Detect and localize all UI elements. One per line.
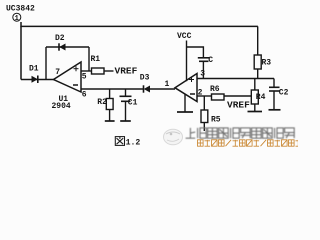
capacitor C [198, 56, 214, 79]
svg-text:2904: 2904 [52, 102, 71, 111]
svg-text:7: 7 [55, 68, 60, 77]
ground for C2 [269, 109, 281, 111]
svg-text:R2: R2 [97, 98, 107, 107]
wire pin2 stub [197, 95, 212, 97]
svg-text:1.2: 1.2 [126, 139, 141, 148]
resistor R6 [210, 85, 224, 100]
svg-text:R4: R4 [256, 93, 266, 102]
ground for C1 [120, 120, 131, 122]
svg-text:C2: C2 [279, 89, 289, 98]
wire left drop to D1 [20, 26, 22, 79]
svg-text:1: 1 [165, 80, 170, 89]
capacitor C1 [120, 89, 138, 121]
resistor R3 [254, 55, 271, 79]
wire D1 row [21, 79, 54, 81]
svg-text:R6: R6 [210, 85, 220, 94]
pin marker circle 1 [13, 13, 21, 21]
svg-text:C: C [208, 56, 213, 65]
figure caption 图1.2 [115, 137, 140, 148]
plus input mark [74, 66, 79, 71]
svg-text:D3: D3 [140, 74, 150, 83]
watermark slogan text row (orange) [198, 140, 302, 146]
op-amp U1 (2904) stage 1 [54, 62, 82, 92]
svg-text:R1: R1 [91, 55, 101, 64]
wire D3 to op-amp 2 output [150, 88, 175, 90]
diode D3 [140, 74, 150, 93]
resistor R5 [201, 96, 221, 131]
wire rail drop to R3 [257, 26, 259, 55]
ground for R4 [248, 111, 263, 113]
wire pin5 stub [81, 70, 92, 72]
wire VCC branch to C [187, 47, 204, 58]
wire feedback top row [46, 46, 89, 48]
watermark logo [164, 129, 183, 145]
wire pin3 row [197, 78, 274, 80]
svg-text:6: 6 [82, 91, 87, 100]
minus input mark [73, 84, 78, 86]
resistor R2 [97, 89, 113, 121]
wire top rail from pin 1 to R3 [21, 22, 258, 26]
wire R1 to VREF [104, 70, 114, 72]
svg-text:D2: D2 [55, 34, 65, 43]
minus input mark (stage 2) [190, 93, 195, 95]
svg-text:1: 1 [15, 15, 19, 23]
wire feedback right drop to pin5 [88, 47, 90, 71]
svg-text:VREF: VREF [227, 100, 250, 111]
resistor R1 [91, 55, 105, 74]
svg-text:VCC: VCC [177, 32, 192, 41]
wire R6 to R4 [224, 95, 251, 97]
watermark company text row (gray) [186, 128, 295, 138]
svg-text:C1: C1 [128, 99, 138, 108]
diode D1 [29, 65, 39, 84]
svg-text:2: 2 [198, 89, 203, 98]
svg-text:R5: R5 [211, 116, 221, 125]
diode D2 [55, 34, 66, 51]
svg-text:R3: R3 [262, 59, 272, 68]
ground for R2 [105, 120, 115, 122]
wire feedback tap up [45, 47, 47, 80]
svg-text:3: 3 [200, 70, 205, 79]
svg-text:D1: D1 [29, 65, 39, 74]
plus input mark (stage 2) [189, 77, 194, 82]
wire VCC drop [186, 41, 188, 82]
capacitor C2 [269, 79, 289, 110]
ground for op-amp 2 [177, 95, 193, 113]
wire pin6 row [81, 88, 144, 90]
svg-text:UC3842: UC3842 [6, 5, 35, 14]
resistor R4 [251, 79, 265, 112]
svg-text:5: 5 [82, 73, 87, 82]
svg-text:VREF: VREF [115, 66, 138, 77]
op-amp U2 stage 2 [175, 74, 197, 102]
